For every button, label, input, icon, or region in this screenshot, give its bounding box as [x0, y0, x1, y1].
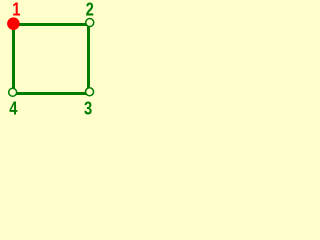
node 2: [86, 19, 94, 27]
wire edge 4-3 (bottom): [12, 92, 89, 95]
node 4: [9, 88, 17, 96]
svg-text:4: 4: [9, 98, 18, 119]
wire edge 1-4 (left): [12, 23, 15, 95]
wire edge 2-3 (right): [87, 23, 90, 95]
wire edge 1-2 (top): [12, 23, 89, 26]
svg-text:2: 2: [86, 0, 94, 20]
node 3: [86, 88, 94, 96]
background: [0, 0, 105, 119]
node 1 (selected, red): [7, 17, 20, 30]
svg-text:3: 3: [84, 98, 92, 119]
svg-text:1: 1: [12, 0, 20, 20]
